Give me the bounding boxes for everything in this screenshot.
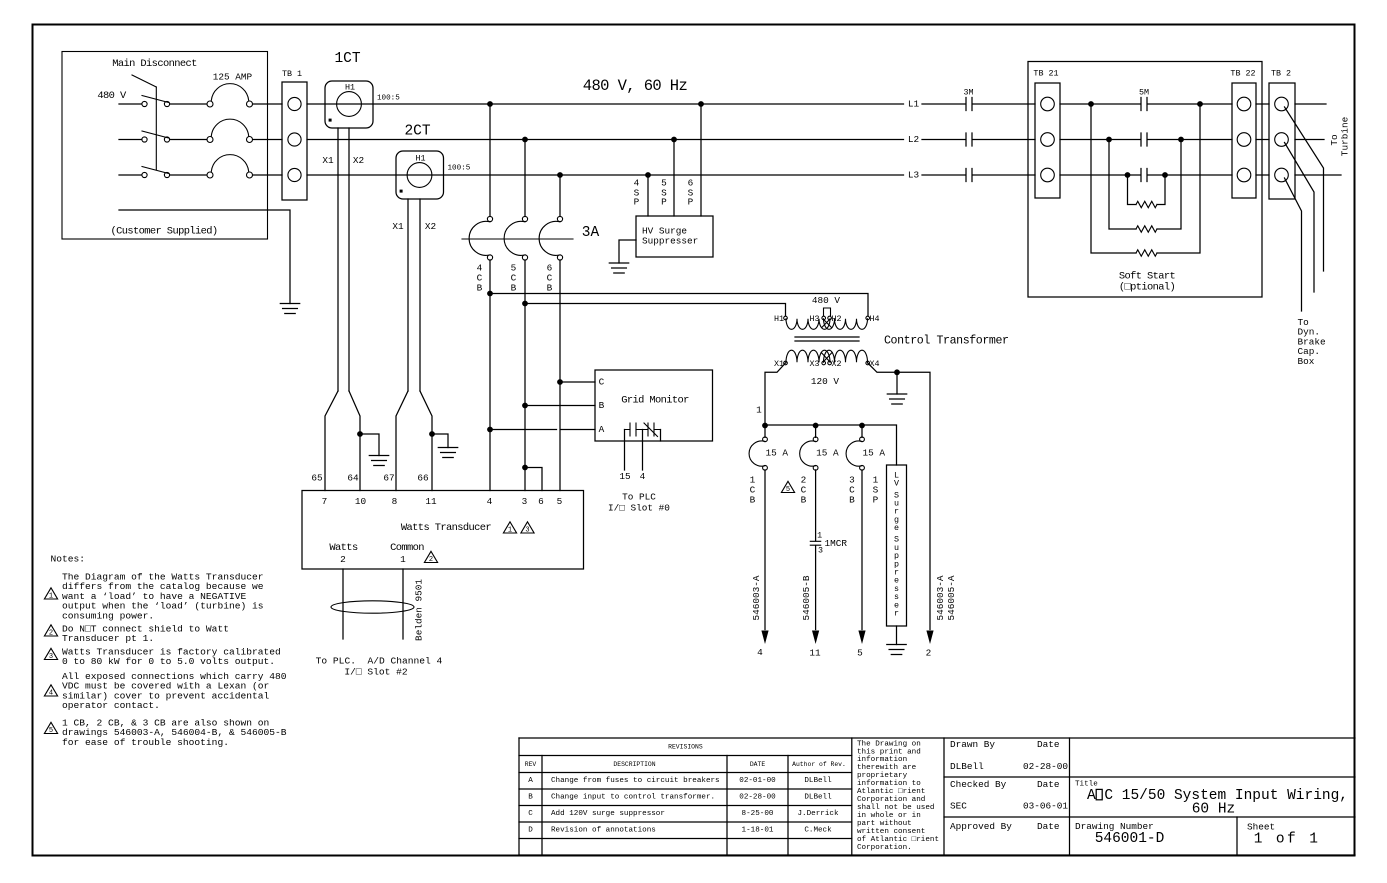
- svg-text:1-18-01: 1-18-01: [742, 827, 774, 835]
- svg-text:15 A: 15 A: [816, 448, 839, 459]
- svg-text:1MCR: 1MCR: [825, 538, 848, 549]
- svg-text:480 V, 60 Hz: 480 V, 60 Hz: [583, 77, 688, 95]
- svg-text:DLBell: DLBell: [950, 761, 984, 772]
- svg-text:TB 22: TB 22: [1230, 69, 1255, 79]
- svg-text:H2: H2: [831, 314, 841, 324]
- ground (2CT shield): [438, 448, 457, 458]
- svg-text:Common: Common: [390, 542, 424, 554]
- note 1: [44, 588, 57, 599]
- wire 5M to TB22 L1: [1148, 103, 1232, 105]
- svg-text:2: 2: [926, 648, 932, 659]
- note triangle 1: [503, 522, 516, 533]
- svg-text:H4: H4: [869, 314, 879, 324]
- svg-text:67: 67: [383, 473, 394, 484]
- svg-text:X2: X2: [831, 359, 841, 369]
- terminal block TB 2: [1269, 83, 1295, 199]
- wire TB2 L2 to turbine: [1295, 139, 1324, 141]
- wire 1CT X2 flare to pin 10: [349, 391, 360, 491]
- wire 5M to TB22 L3: [1148, 174, 1232, 176]
- svg-text:1: 1: [400, 554, 406, 565]
- svg-text:11: 11: [809, 648, 821, 659]
- circuit breaker 5CB: [522, 216, 527, 221]
- svg-text:Control Transformer: Control Transformer: [884, 335, 1009, 348]
- wire 2CT X2 lead: [419, 199, 421, 391]
- svg-text:H1: H1: [345, 83, 355, 93]
- transformer T1 primary: [784, 316, 788, 320]
- svg-text:15 A: 15 A: [863, 448, 886, 459]
- svg-text:546003-A: 546003-A: [935, 575, 946, 620]
- svg-text:1: 1: [49, 593, 53, 601]
- svg-text:L1: L1: [908, 99, 920, 110]
- svg-text:1: 1: [756, 405, 762, 416]
- svg-text:5: 5: [857, 648, 863, 659]
- svg-text:To: To: [1329, 134, 1340, 146]
- wire grid monitor pin 4: [642, 430, 644, 471]
- device HV Surge Suppresser: [636, 216, 713, 257]
- svg-text:6: 6: [538, 496, 544, 507]
- svg-text:Watts: Watts: [329, 542, 358, 554]
- svg-text:of Atlantic □rient: of Atlantic □rient: [857, 836, 939, 844]
- wire bus to 4CB: [489, 104, 491, 216]
- svg-text:H1: H1: [774, 314, 784, 324]
- contactor 5M: [1141, 98, 1147, 111]
- current transformer 1CT: [325, 81, 373, 128]
- svg-text:Turbine: Turbine: [1340, 116, 1351, 156]
- svg-text:1 of 1: 1 of 1: [1254, 832, 1321, 848]
- svg-text:I/□ Slot #0: I/□ Slot #0: [608, 503, 670, 514]
- grid monitor output contacts: [625, 429, 661, 431]
- svg-text:Date: Date: [1037, 821, 1060, 832]
- svg-text:15 A: 15 A: [766, 448, 789, 459]
- svg-text:5: 5: [786, 486, 790, 494]
- svg-text:4: 4: [640, 471, 646, 482]
- svg-text:65: 65: [311, 473, 323, 484]
- terminal block TB 21: [1035, 83, 1060, 198]
- wire 1MCR to pin 11: [815, 546, 817, 630]
- wire fuse 3 to TB 1: [253, 174, 282, 176]
- svg-text:4: 4: [757, 647, 763, 658]
- note 5: [44, 722, 57, 733]
- junction wire 5 / phase C tap: [557, 379, 563, 385]
- wire 1CT X1 lead: [337, 128, 339, 391]
- svg-text:3: 3: [525, 527, 529, 535]
- svg-text:proprietary: proprietary: [857, 772, 908, 780]
- arrow to 5: [858, 631, 865, 645]
- wire TB2 L3 to turbine: [1295, 174, 1341, 176]
- svg-text:100:5: 100:5: [377, 95, 400, 103]
- circuit breaker 3CB 15 A: [861, 425, 863, 437]
- junction bus L2 / 5SP: [671, 137, 677, 143]
- svg-text:Transducer pt 1.: Transducer pt 1.: [62, 633, 154, 644]
- svg-text:8: 8: [392, 496, 398, 507]
- wire bus L3: [307, 174, 904, 176]
- contactor 3M: [966, 98, 972, 111]
- svg-text:TB 2: TB 2: [1271, 69, 1291, 79]
- junction bus L3 / 6CB: [557, 172, 563, 178]
- junction bus L2 / 5CB: [522, 137, 528, 143]
- svg-text:in whole or in: in whole or in: [857, 812, 921, 820]
- disconnect switch pole 2: [142, 137, 147, 142]
- wire bus L1: [307, 103, 904, 105]
- svg-text:therewith are: therewith are: [857, 764, 917, 772]
- svg-text:2CT: 2CT: [404, 124, 430, 140]
- ground (LV suppressor): [887, 645, 906, 655]
- svg-text:B: B: [750, 495, 756, 506]
- svg-text:5M: 5M: [1139, 88, 1149, 98]
- svg-text:A: A: [599, 424, 605, 435]
- svg-text:C: C: [528, 810, 533, 818]
- junction wire 3 / phase B tap: [522, 403, 528, 409]
- svg-text:H1: H1: [415, 154, 425, 164]
- svg-text:66: 66: [417, 473, 429, 484]
- wire L2 input stub: [119, 139, 142, 141]
- wire 1CT X2 lead: [348, 128, 350, 391]
- disconnect switch pole 1: [142, 101, 147, 106]
- svg-text:information: information: [857, 756, 907, 764]
- wire TB2 L1 to turbine: [1295, 103, 1326, 105]
- svg-text:Author of Rev.: Author of Rev.: [792, 761, 846, 768]
- svg-text:11: 11: [425, 496, 437, 507]
- svg-text:8-25-00: 8-25-00: [742, 810, 774, 818]
- wire node 1 bus: [765, 425, 897, 465]
- gang bar 3A: [462, 238, 573, 240]
- svg-text:Atlantic □rient: Atlantic □rient: [857, 788, 925, 796]
- svg-text:operator contact.: operator contact.: [62, 700, 160, 711]
- fuse 1 125 AMP: [207, 101, 213, 107]
- svg-text:15: 15: [619, 471, 631, 482]
- svg-text:7: 7: [322, 496, 328, 507]
- junction bus L3 / 4SP: [645, 172, 651, 178]
- junction bus L1 / 6SP: [698, 101, 704, 107]
- svg-text:X1: X1: [322, 155, 334, 166]
- wire 6SP: [700, 104, 702, 216]
- svg-text:written consent: written consent: [857, 828, 925, 836]
- wire neutral to ground: [896, 372, 898, 394]
- svg-text:Box: Box: [1298, 356, 1315, 367]
- device Grid Monitor: [595, 370, 713, 441]
- wire 4CB to transducer pin 4: [489, 260, 491, 491]
- svg-text:3: 3: [49, 653, 53, 661]
- ground (main disconnect): [280, 304, 299, 314]
- svg-text:I/□ Slot #2: I/□ Slot #2: [344, 667, 408, 678]
- svg-text:DESCRIPTION: DESCRIPTION: [613, 761, 655, 768]
- wire 2CT X1 flare to pin 8: [396, 391, 408, 491]
- svg-text:this print and: this print and: [857, 748, 921, 756]
- svg-text:L2: L2: [908, 134, 919, 145]
- junction wire 4 / phase A tap: [487, 427, 493, 433]
- svg-text:120 V: 120 V: [811, 376, 840, 387]
- svg-text:consuming power.: consuming power.: [62, 610, 154, 621]
- ground (HV suppressor): [609, 263, 628, 273]
- svg-text:shall not be used: shall not be used: [857, 804, 934, 812]
- wire to grid monitor B: [525, 405, 595, 407]
- svg-text:Main Disconnect: Main Disconnect: [112, 58, 197, 70]
- note triangle 2: [424, 551, 437, 562]
- svg-text:2: 2: [340, 554, 346, 565]
- wire X1 to node 1: [765, 363, 786, 425]
- svg-text:546005-A: 546005-A: [946, 575, 957, 620]
- svg-text:B: B: [801, 495, 807, 506]
- wire switch pole 3 to fuse: [170, 174, 207, 176]
- svg-text:125 AMP: 125 AMP: [213, 72, 253, 83]
- svg-text:480 V: 480 V: [97, 90, 127, 102]
- svg-text:B: B: [477, 283, 483, 294]
- svg-text:3M: 3M: [963, 88, 973, 98]
- svg-text:X1: X1: [392, 221, 404, 232]
- wire TB22 to TB2 L2: [1256, 139, 1269, 141]
- svg-text:10: 10: [355, 496, 367, 507]
- wire TB22 to TB2 L3: [1256, 174, 1269, 176]
- wire 4SP: [647, 175, 649, 216]
- wire 1CB to pin 4: [764, 470, 766, 630]
- terminal block TB 22: [1232, 83, 1256, 198]
- enclosure Main Disconnect (customer supplied): [62, 52, 268, 240]
- device Watts Transducer: [302, 491, 584, 570]
- svg-text:02-01-00: 02-01-00: [739, 777, 776, 785]
- winding crossover primary: [822, 320, 832, 328]
- svg-text:TB 21: TB 21: [1033, 69, 1058, 79]
- wire to grid monitor C: [560, 381, 595, 383]
- svg-text:(□ptional): (□ptional): [1119, 282, 1175, 294]
- wire 6CB to transducer pin 5: [559, 260, 561, 491]
- wire to grid monitor A: [490, 429, 557, 431]
- svg-text:Corporation.: Corporation.: [857, 844, 912, 852]
- svg-text:DLBell: DLBell: [804, 794, 832, 802]
- transformer T1 secondary: [784, 361, 788, 365]
- disconnect operating handle: [132, 75, 156, 87]
- current transformer 2CT: [396, 151, 444, 199]
- svg-text:Change from fuses to circuit b: Change from fuses to circuit breakers: [551, 777, 720, 785]
- ground (transformer neutral): [887, 394, 906, 404]
- svg-text:B: B: [528, 794, 533, 802]
- svg-text:Add 120V surge suppressor: Add 120V surge suppressor: [551, 810, 665, 818]
- svg-text:DLBell: DLBell: [804, 777, 832, 785]
- wire fuse 1 to TB 1: [253, 103, 282, 105]
- wire LV suppressor to ground: [896, 626, 898, 645]
- svg-text:A: A: [528, 777, 533, 785]
- svg-text:4: 4: [487, 496, 493, 507]
- svg-text:REVISIONS: REVISIONS: [668, 744, 703, 751]
- svg-text:2: 2: [49, 630, 53, 638]
- svg-text:Checked By: Checked By: [950, 779, 1007, 790]
- wire X4 to neutral run: [868, 363, 930, 630]
- svg-text:e: e: [894, 523, 899, 533]
- wire contact end: [660, 430, 662, 442]
- title block grid: [519, 738, 1355, 855]
- wire 2CT X1 lead: [407, 199, 409, 391]
- winding crossover secondary: [821, 353, 832, 362]
- wire Watts output: [342, 569, 344, 639]
- svg-text:Date: Date: [1037, 739, 1060, 750]
- disconnect switch pole 3: [142, 172, 147, 177]
- disconnect linkage bar: [155, 87, 157, 170]
- ground (1CT shield): [369, 456, 388, 466]
- svg-text:2: 2: [429, 556, 433, 564]
- svg-text:Notes:: Notes:: [51, 554, 86, 565]
- svg-text:3A: 3A: [582, 225, 600, 241]
- terminal block TB 1: [282, 82, 307, 200]
- svg-text:X4: X4: [869, 359, 879, 369]
- svg-text:X2: X2: [353, 155, 364, 166]
- svg-text:Date: Date: [1037, 779, 1060, 790]
- wire switch pole 1 to fuse: [170, 103, 207, 105]
- svg-text:02-28-00: 02-28-00: [739, 794, 776, 802]
- circuit breaker 1CB 15 A: [764, 425, 766, 437]
- wire TB2 L1 to brake cap: [1285, 107, 1324, 271]
- wire TB21 to 5M L1: [1060, 103, 1141, 105]
- svg-text:REV: REV: [525, 761, 537, 768]
- svg-text:5: 5: [557, 496, 563, 507]
- wire TB21 to 5M L2: [1060, 139, 1141, 141]
- svg-text:Revision of annotations: Revision of annotations: [551, 827, 656, 835]
- wire switch pole 2 to fuse: [170, 139, 207, 141]
- bypass resistor loop L3: [1125, 172, 1131, 178]
- svg-text:4: 4: [49, 690, 53, 698]
- wire bus L2: [307, 139, 904, 141]
- svg-text:V: V: [894, 479, 899, 489]
- junction neutral ground: [894, 369, 900, 375]
- wire 1CT shield to ground: [360, 434, 379, 456]
- wire 1CT X1 flare to pin 7: [325, 391, 338, 491]
- wire 5SP: [673, 140, 675, 217]
- svg-text:0 to 80 kW for 0 to 5.0 volts: 0 to 80 kW for 0 to 5.0 volts output.: [62, 656, 275, 667]
- svg-text:X1: X1: [774, 359, 784, 369]
- svg-text:480 V: 480 V: [812, 295, 841, 306]
- jog wire 3 to pin 6: [522, 465, 528, 471]
- svg-text:L3: L3: [908, 170, 920, 181]
- wire bus to 6CB: [559, 175, 561, 216]
- svg-text:03-06-01: 03-06-01: [1023, 801, 1068, 812]
- note triangle 3: [521, 522, 534, 533]
- svg-text:B: B: [599, 400, 605, 411]
- circuit breaker 4CB: [487, 216, 492, 221]
- svg-text:546001-D: 546001-D: [1095, 831, 1165, 847]
- svg-text:100:5: 100:5: [448, 165, 471, 173]
- svg-text:02-28-00: 02-28-00: [1023, 761, 1068, 772]
- arrow to 2: [926, 631, 933, 645]
- wire 2CT shield to ground: [432, 434, 448, 448]
- svg-text:B: B: [849, 495, 855, 506]
- wire L2 tap to H1: [522, 301, 528, 307]
- svg-text:X3: X3: [809, 359, 819, 369]
- svg-text:To PLC. A/D Channel 4: To PLC. A/D Channel 4: [316, 656, 443, 667]
- wire HV suppressor to ground: [619, 240, 636, 263]
- svg-text:Corporation and: Corporation and: [857, 796, 925, 804]
- junction bus L1 / 4CB: [487, 101, 493, 107]
- junction 2CT shield: [429, 431, 435, 437]
- svg-text:60 Hz: 60 Hz: [1192, 802, 1236, 818]
- svg-text:Belden 9501: Belden 9501: [414, 579, 425, 641]
- transformer core: [795, 336, 859, 338]
- arrow to 11: [812, 631, 819, 645]
- svg-text:information to: information to: [857, 780, 921, 788]
- svg-text:(Customer Supplied): (Customer Supplied): [110, 226, 217, 238]
- cable shield Belden 9501: [331, 601, 414, 613]
- svg-text:Watts Transducer: Watts Transducer: [401, 522, 492, 534]
- wire grid monitor pin 15: [624, 430, 626, 471]
- wire 2CB to 1MCR: [815, 470, 817, 541]
- svg-text:Suppresser: Suppresser: [642, 236, 698, 247]
- arrow to 4: [761, 631, 768, 645]
- note 4: [44, 685, 57, 696]
- svg-text:64: 64: [347, 473, 359, 484]
- svg-text:1: 1: [817, 531, 822, 541]
- circuit breaker 2CB 15 A: [815, 425, 817, 437]
- wire TB21 to 5M L3: [1060, 174, 1141, 176]
- circuit breaker 6CB: [557, 216, 562, 221]
- svg-text:The Drawing on: The Drawing on: [857, 740, 921, 748]
- wire 2CT X2 flare to pin 11: [420, 391, 432, 491]
- svg-text:C.Meck: C.Meck: [804, 827, 832, 835]
- wire 5CB to transducer pin 3: [524, 260, 526, 491]
- svg-text:for ease of trouble shooting.: for ease of trouble shooting.: [62, 737, 229, 748]
- svg-text:SEC: SEC: [950, 801, 967, 812]
- svg-text:P: P: [661, 197, 667, 208]
- svg-text:Change input to control transf: Change input to control transformer.: [551, 794, 715, 802]
- note triangle 5: [781, 481, 794, 492]
- wire L1 tap to H4: [487, 291, 493, 297]
- note 3: [44, 648, 57, 659]
- wire enclosure ground run: [119, 210, 290, 304]
- wire TB2 L2 to brake cap: [1285, 143, 1315, 293]
- svg-text:P: P: [688, 197, 694, 208]
- fuse 3 125 AMP: [207, 172, 213, 178]
- svg-text:3: 3: [818, 546, 823, 556]
- svg-text:D: D: [528, 827, 533, 835]
- svg-text:B: B: [547, 283, 553, 294]
- svg-text:1: 1: [508, 527, 512, 535]
- svg-text:P: P: [634, 197, 640, 208]
- wire bus to 5CB: [524, 140, 526, 217]
- enclosure Soft Start (optional): [1028, 62, 1262, 298]
- svg-text:5: 5: [49, 727, 53, 735]
- note 2: [44, 625, 57, 636]
- svg-text:DATE: DATE: [750, 761, 766, 768]
- contact 1MCR: [810, 541, 820, 545]
- wire L1 input stub: [119, 103, 142, 105]
- bypass resistor loop L2: [1106, 137, 1112, 143]
- svg-text:546003-A: 546003-A: [751, 575, 762, 620]
- fuse 2 125 AMP: [207, 137, 213, 143]
- svg-text:part without: part without: [857, 820, 912, 828]
- wire TB22 to TB2 L1: [1256, 103, 1269, 105]
- svg-text:B: B: [511, 283, 517, 294]
- wire TB2 L3 to brake cap: [1285, 178, 1302, 311]
- svg-text:r: r: [894, 609, 899, 619]
- svg-text:H3: H3: [809, 314, 819, 324]
- svg-text:Drawn By: Drawn By: [950, 739, 995, 750]
- svg-text:TB 1: TB 1: [282, 69, 302, 79]
- wire fuse 2 to TB 1: [253, 139, 282, 141]
- svg-text:P: P: [873, 495, 879, 506]
- jumper H3-H2 480V tap: [824, 308, 831, 316]
- wire 5M to TB22 L2: [1148, 139, 1232, 141]
- wire 3CB to pin 5: [861, 470, 863, 630]
- svg-text:J.Derrick: J.Derrick: [797, 810, 838, 818]
- svg-text:C: C: [599, 377, 605, 388]
- svg-text:Approved By: Approved By: [950, 821, 1012, 832]
- svg-text:3: 3: [522, 496, 528, 507]
- svg-text:Grid Monitor: Grid Monitor: [621, 395, 689, 407]
- junction 1CT shield: [357, 431, 363, 437]
- svg-text:546005-B: 546005-B: [801, 575, 812, 620]
- svg-text:To PLC: To PLC: [622, 492, 656, 503]
- wire L3 input stub: [119, 174, 142, 176]
- svg-text:1CT: 1CT: [334, 51, 360, 67]
- svg-text:X2: X2: [425, 221, 436, 232]
- bypass resistor loop L1: [1088, 101, 1094, 107]
- wire Common output: [402, 569, 404, 639]
